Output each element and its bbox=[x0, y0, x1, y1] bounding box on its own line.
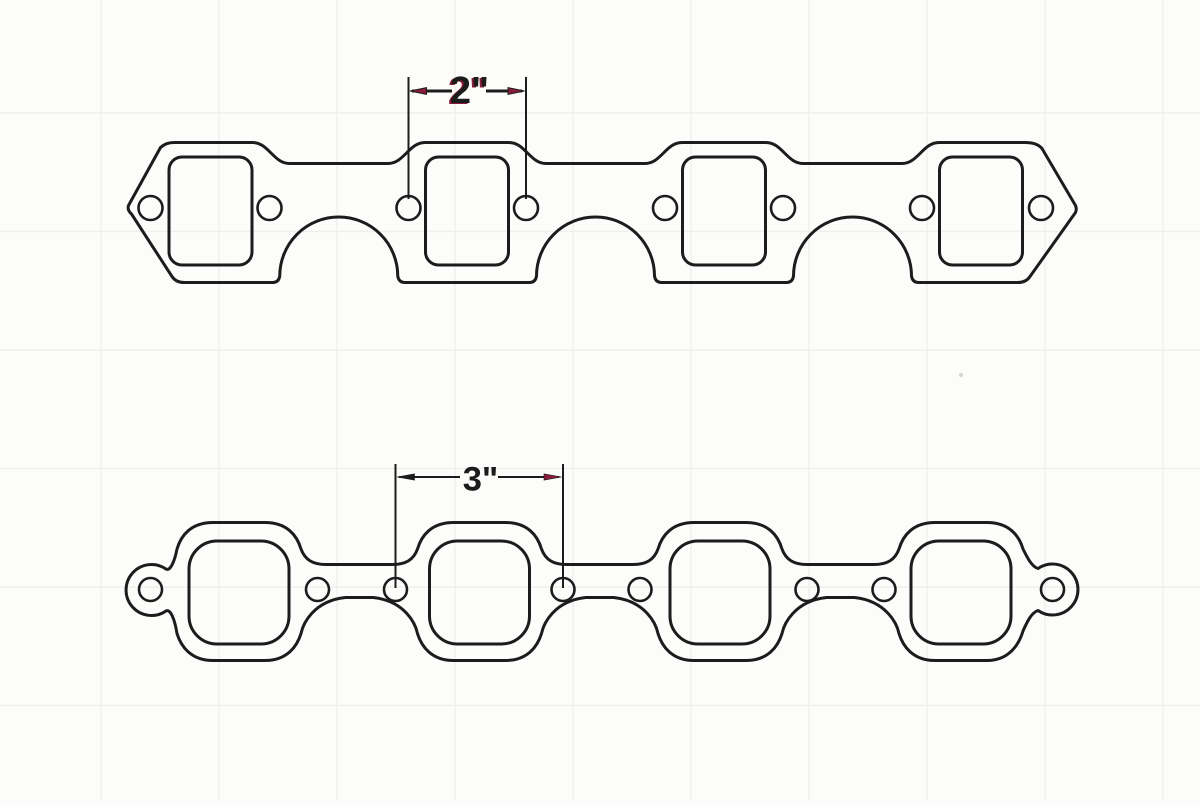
bolt hole B11 bbox=[384, 578, 407, 601]
port P7 bbox=[670, 541, 770, 644]
dimension D2 arrow left bbox=[397, 474, 415, 480]
bolt hole B13 bbox=[629, 578, 652, 601]
port P3 bbox=[683, 157, 766, 265]
svg-text:3": 3" bbox=[463, 461, 499, 499]
dimension D1 arrow left bbox=[410, 88, 427, 95]
bolt hole B5 bbox=[653, 196, 677, 220]
port P2 bbox=[426, 157, 509, 265]
bolt hole B7 bbox=[910, 196, 934, 220]
dimension D1 arrow right bbox=[508, 88, 525, 95]
dimension D1 line left segment bbox=[412, 90, 452, 93]
bolt hole B6 bbox=[771, 196, 795, 220]
svg-text:2": 2" bbox=[450, 70, 489, 112]
dimension D1 extension line right bbox=[525, 77, 527, 199]
dimension D2 line right segment bbox=[498, 476, 559, 478]
dimension D2 extension line left bbox=[395, 464, 397, 588]
dimension D2 extension line right bbox=[562, 464, 564, 588]
port P6 bbox=[430, 541, 530, 644]
bolt hole B1 bbox=[139, 196, 163, 220]
gasket G2 outline (3-inch bolt spacing flange) bbox=[126, 523, 1078, 661]
bolt hole B4 bbox=[514, 196, 538, 220]
dimension D1 line right segment bbox=[486, 90, 522, 93]
bolt hole B12 bbox=[552, 578, 575, 601]
bolt hole B3 bbox=[397, 196, 421, 220]
dimension D2 arrow right bbox=[544, 474, 562, 480]
bolt hole B10 bbox=[306, 578, 329, 601]
port P4 bbox=[940, 157, 1023, 265]
port P8 bbox=[911, 541, 1011, 644]
bolt hole B15 bbox=[873, 578, 896, 601]
port P1 bbox=[169, 157, 252, 265]
bolt hole B8 bbox=[1029, 196, 1053, 220]
bolt hole B16 bbox=[1041, 578, 1064, 601]
dimension D2 line left segment bbox=[399, 476, 460, 478]
bolt hole B14 bbox=[796, 578, 819, 601]
gasket G1 outline (2-inch bolt spacing flange) bbox=[128, 143, 1076, 283]
port P5 bbox=[189, 541, 289, 644]
bolt hole B2 bbox=[258, 196, 282, 220]
dimension D1 extension line left bbox=[408, 77, 410, 199]
bolt hole B9 bbox=[139, 578, 162, 601]
